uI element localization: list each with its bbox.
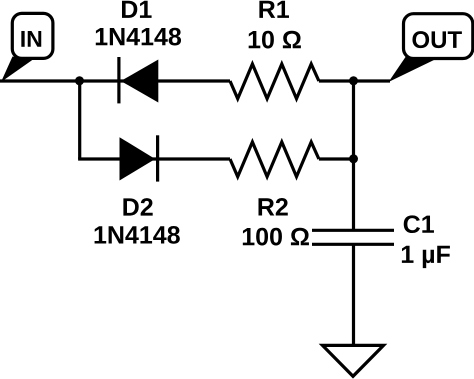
junction node C (row2 right) <box>349 154 358 163</box>
junction node B (row1 right) <box>349 76 358 85</box>
junction node A (row1 left) <box>75 76 84 85</box>
wire: left vertical from node A down to row2 <box>78 81 81 159</box>
wire row1: R1 right to OUT tail <box>319 79 390 82</box>
label D1 <box>122 1 152 18</box>
label R2 <box>258 198 287 215</box>
value 1 uF (C1) <box>402 246 450 268</box>
wire row1: IN tail to R1 left <box>0 79 230 82</box>
wire: right vertical node B down to C1 top plate <box>352 81 355 230</box>
diode D2 (arrow pointing right, cathode bar at right) <box>120 135 158 181</box>
label D2 <box>123 198 152 215</box>
wire: C1 bottom plate down to ground <box>352 244 355 345</box>
value 1N4148 (D2) <box>95 226 180 244</box>
value 100 Ohm (R2) <box>243 228 309 246</box>
wire row2: R2 right to node C <box>319 157 354 160</box>
flag terminal OUT <box>389 14 473 82</box>
capacitor C1 plates <box>312 230 394 244</box>
label R1 <box>259 1 289 18</box>
wire row2: corner to D2 anode <box>78 157 230 160</box>
value 1N4148 (D1) <box>96 28 181 46</box>
value 10 Ohm (R1) <box>249 31 301 49</box>
label C1 <box>404 215 434 233</box>
resistor R1 zigzag <box>230 64 319 99</box>
resistor R2 zigzag <box>230 142 319 177</box>
flag terminal IN <box>1 13 53 82</box>
diode D1 (cathode bar at left, arrow pointing left) <box>119 57 158 103</box>
ground symbol <box>323 345 384 376</box>
